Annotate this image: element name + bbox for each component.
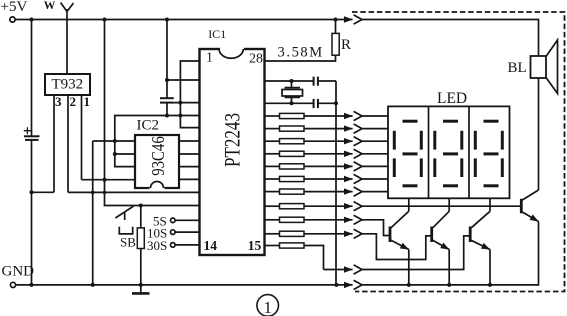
svg-text:IC1: IC1 bbox=[208, 27, 226, 41]
wire GND rail bbox=[16, 284, 337, 286]
digits bbox=[394, 121, 502, 186]
wire IC1 pin from C2 top bbox=[167, 79, 200, 81]
wire IC1 pin28 to R bbox=[265, 55, 336, 61]
junction at 336,103.3 bbox=[334, 101, 338, 105]
switch SB bbox=[115, 206, 133, 218]
resistor ladder R3 bbox=[265, 140, 280, 142]
wire +5V arrow into box bbox=[336, 19, 353, 21]
wire row 11 bend down bbox=[304, 246, 324, 270]
connector chevron row 3 bbox=[354, 137, 362, 146]
capacitor C2 at IC2 bbox=[166, 20, 168, 99]
wire to Q3 base bbox=[362, 236, 470, 270]
transistor Q4 bbox=[521, 190, 538, 222]
resistor ladder R4 bbox=[265, 153, 280, 155]
wire to LED pin 3 bbox=[362, 140, 388, 142]
resistor ladder R5 bbox=[265, 165, 280, 167]
junction at 167,19.5 bbox=[165, 18, 169, 22]
antenna W bbox=[61, 3, 74, 75]
wire +5V rail bbox=[15, 19, 335, 21]
resistor R-pulldown bbox=[140, 206, 142, 228]
junction at 31.5,284.9 bbox=[30, 283, 34, 287]
svg-text:28: 28 bbox=[249, 52, 263, 67]
node 5S terminal bbox=[171, 218, 176, 223]
svg-text:3: 3 bbox=[55, 94, 62, 109]
ground bar bbox=[140, 285, 142, 293]
capacitor C1 polarized bbox=[31, 20, 33, 137]
IC U3 IC1 PT2243 bbox=[200, 49, 265, 255]
wire crystal rail top bbox=[265, 80, 314, 82]
wire pin3 to C1 bbox=[32, 191, 55, 193]
wire pin2 to IC1 bbox=[68, 191, 200, 193]
wire to LED pin 5 bbox=[362, 165, 388, 167]
junction at 167,80 bbox=[165, 78, 169, 82]
svg-text:93C46: 93C46 bbox=[148, 136, 168, 176]
transistors bbox=[390, 190, 539, 285]
capacitor C3 bbox=[314, 77, 318, 86]
junction at 449.2,284.9 bbox=[447, 283, 451, 287]
IC U2 93C46 bbox=[135, 135, 179, 188]
wire IC2 right pin d bbox=[179, 178, 200, 180]
junction at 490,284.9 bbox=[488, 283, 492, 287]
connector chevron row 4 bbox=[354, 149, 362, 158]
svg-text:30S: 30S bbox=[147, 238, 167, 253]
connector chevron row 11 bbox=[354, 265, 362, 274]
connector chevron row 8 bbox=[354, 202, 362, 211]
wire IC1 pin from C2 bottom bbox=[174, 102, 200, 104]
svg-text:LED: LED bbox=[437, 90, 467, 107]
node 10S terminal bbox=[171, 230, 176, 235]
junction at 336.4,284.9 bbox=[334, 283, 338, 287]
7-segment digit 1 bbox=[394, 121, 421, 186]
capacitor C4 bbox=[314, 99, 318, 108]
wire ground bus bbox=[335, 81, 337, 285]
wire to LED pin 4 bbox=[362, 153, 388, 155]
resistor R bbox=[332, 33, 339, 55]
wire to Q1 base bbox=[362, 220, 390, 236]
junction at 31.5,19.5 bbox=[30, 18, 34, 22]
resistor ladder R1 bbox=[265, 115, 280, 117]
node +5V terminal bbox=[10, 17, 15, 22]
junction at 31.5,192.3 bbox=[30, 190, 34, 194]
wire bus B left of IC1 bbox=[180, 61, 199, 128]
junction at 167,115.5 bbox=[165, 114, 169, 118]
svg-text:IC2: IC2 bbox=[137, 118, 160, 134]
transistor Q2 bbox=[432, 211, 450, 285]
junction at 92.7,284.9 bbox=[91, 283, 95, 287]
wire +5V drop to switch bbox=[105, 20, 141, 206]
node 30S terminal bbox=[171, 243, 176, 248]
connector chevron row 1 bbox=[354, 111, 362, 120]
junction at 114.8,141 bbox=[113, 139, 117, 143]
connector chevron row 7 bbox=[354, 187, 362, 196]
wire to Q4 base bbox=[362, 205, 521, 207]
connector chevron row 2 bbox=[354, 124, 362, 133]
svg-text:2: 2 bbox=[70, 94, 77, 109]
wire to LED pin 7 bbox=[362, 191, 388, 193]
transistor Q3 bbox=[470, 211, 490, 285]
7-segment digit 3 bbox=[475, 121, 502, 186]
resistor ladder R8 bbox=[265, 205, 280, 207]
svg-text:15: 15 bbox=[248, 238, 262, 253]
wire IC2 right pin a bbox=[179, 140, 200, 142]
svg-text:3.58M: 3.58M bbox=[278, 45, 324, 61]
LED display box bbox=[388, 106, 510, 198]
speaker BL bbox=[531, 56, 547, 78]
junction at 92.7,192.4 bbox=[91, 191, 95, 195]
wire to Q2 base bbox=[362, 234, 432, 260]
svg-text:T932: T932 bbox=[52, 77, 84, 93]
connector chevron row 5 bbox=[354, 162, 362, 171]
junction at 291.5,103.3 bbox=[290, 101, 294, 105]
wire pin1 to IC2 bbox=[82, 179, 136, 181]
pin 3 of T932 bbox=[53, 95, 55, 192]
junction at 104.5,192.4 bbox=[103, 191, 107, 195]
svg-text:+5V: +5V bbox=[1, 0, 28, 15]
junction at 180.4,115.5 bbox=[178, 114, 182, 118]
resistor ladder and rows bbox=[265, 111, 522, 274]
svg-text:GND: GND bbox=[2, 264, 35, 280]
wire to LED pin 6 bbox=[362, 178, 388, 180]
svg-text:PT2243: PT2243 bbox=[220, 113, 245, 167]
junction at 114.8,154 bbox=[113, 152, 117, 156]
resistor ladder R7 bbox=[265, 191, 280, 193]
junction at 104.5,179.7 bbox=[103, 178, 107, 182]
wire IC1 pin to IC2 bbox=[115, 116, 200, 167]
wire IC2 right pin b bbox=[179, 153, 200, 155]
node GND terminal bbox=[10, 282, 15, 287]
svg-text:BL: BL bbox=[508, 60, 527, 76]
wire IC2 right pin c bbox=[179, 166, 200, 168]
transistor Q1 bbox=[390, 211, 409, 285]
pin 2 of T932 bbox=[67, 95, 69, 192]
svg-text:SB: SB bbox=[120, 235, 136, 250]
wire crystal rail bottom bbox=[265, 102, 314, 104]
pin 1 of T932 bbox=[81, 95, 83, 180]
resistor ladder R2 bbox=[265, 128, 280, 130]
resistor ladder R10 bbox=[265, 233, 280, 235]
connector chevron row 6 bbox=[354, 174, 362, 183]
junction at 335.5,19.5 bbox=[334, 18, 338, 22]
wire IC2 pin 154 bbox=[115, 153, 135, 155]
wire to LED pin 2 bbox=[362, 128, 388, 130]
svg-text:W: W bbox=[44, 0, 56, 12]
svg-text:1: 1 bbox=[84, 94, 91, 109]
svg-text:1: 1 bbox=[206, 51, 213, 66]
crystal X1 3.58M bbox=[285, 81, 300, 103]
digit drop wires bbox=[408, 198, 410, 211]
junction at 180.4,102.6 bbox=[178, 101, 182, 105]
7-segment digit 2 bbox=[435, 121, 462, 186]
wire switch node to IC1 bbox=[141, 205, 200, 207]
IC U1 T932 bbox=[45, 74, 90, 95]
resistor ladder R9 bbox=[265, 219, 280, 221]
wire IC2 pin 141 to GND bbox=[92, 141, 94, 285]
junction at 104.5,19.5 bbox=[103, 18, 107, 22]
resistor ladder R6 bbox=[265, 178, 280, 180]
circled figure number 1 bbox=[257, 295, 279, 316]
junction at 140.8,284.9 bbox=[139, 283, 143, 287]
junction at 291.5,81 bbox=[290, 79, 294, 83]
svg-text:1: 1 bbox=[263, 298, 272, 316]
svg-text:14: 14 bbox=[204, 238, 218, 253]
connector chevron row 10 bbox=[354, 229, 362, 238]
resistor ladder R11 bbox=[265, 245, 280, 247]
wire GND into box bbox=[336, 284, 352, 286]
wire to LED pin 1 bbox=[362, 115, 388, 117]
svg-text:R: R bbox=[341, 37, 351, 53]
dashed box border bbox=[352, 12, 565, 292]
junction at 140.8,205.5 bbox=[139, 204, 143, 208]
junction at 408.8,284.9 bbox=[407, 283, 411, 287]
connector chevron row 9 bbox=[354, 215, 362, 224]
wire IC2 pin 141 bbox=[93, 140, 135, 142]
